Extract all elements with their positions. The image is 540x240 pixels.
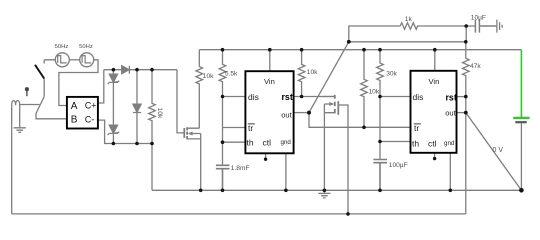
wire ctl1 stub <box>265 154 267 159</box>
wire headphone to switch node <box>20 104 40 106</box>
switch S1 <box>35 65 44 97</box>
svg-text:47k: 47k <box>470 63 481 70</box>
diode D1 <box>122 66 130 74</box>
probe arrow marker <box>26 88 29 96</box>
svg-text:tr: tr <box>248 123 253 133</box>
capacitor C3 100uF <box>373 160 387 191</box>
resistor R4 10k (rst1 pullup) <box>298 50 305 97</box>
svg-text:B: B <box>71 115 78 126</box>
zener Z2 <box>108 125 120 143</box>
wire th1 <box>223 141 246 143</box>
wire out2 <box>457 112 466 114</box>
diode D2 <box>133 70 141 144</box>
svg-text:A: A <box>71 101 78 112</box>
wire out1 down to tr2 <box>309 113 364 128</box>
wire th2 <box>380 141 411 143</box>
svg-text:rst: rst <box>282 92 293 102</box>
svg-text:out: out <box>445 108 456 117</box>
svg-text:50Hz: 50Hz <box>55 44 69 50</box>
svg-text:100µF: 100µF <box>389 162 408 169</box>
svg-text:1k: 1k <box>405 16 413 23</box>
headphone LS1 <box>12 101 20 122</box>
svg-text:10k: 10k <box>156 108 163 120</box>
wire bottom rail <box>112 144 152 191</box>
svg-text:ctl: ctl <box>428 138 437 148</box>
wire Vin1 riser <box>269 50 271 71</box>
ground G2 (rotated right) <box>497 20 502 33</box>
svg-text:1.8mF: 1.8mF <box>231 165 250 172</box>
wire cap feed <box>466 26 475 42</box>
battery B1 <box>513 50 529 191</box>
wire C+ to top line <box>98 70 103 103</box>
capacitor C2 10uF <box>475 20 496 33</box>
resistor R8 47k <box>462 42 469 97</box>
wire out1 <box>294 112 309 114</box>
svg-text:ctl: ctl <box>263 138 272 148</box>
wire top line <box>104 69 177 71</box>
svg-text:gnd: gnd <box>281 139 292 146</box>
resistor R6 10k (tr2) <box>361 50 368 128</box>
wire out1 diagonal to top <box>309 42 349 113</box>
resistor R5 1k <box>400 23 417 30</box>
source V1 50Hz <box>55 53 69 67</box>
wire tr1 <box>223 127 246 129</box>
svg-text:tr: tr <box>414 123 419 133</box>
svg-text:th: th <box>412 138 419 148</box>
wire rst1 to Q2 drain <box>294 96 335 98</box>
svg-text:C+: C+ <box>85 101 97 111</box>
wire rst2 <box>457 96 466 98</box>
resistor R1 10k (vertical, rotated label) <box>149 70 156 144</box>
svg-text:50Hz: 50Hz <box>79 44 93 50</box>
resistor R7 30k (dis2) <box>377 50 384 97</box>
source V2 50Hz <box>80 53 94 67</box>
wire gate riser MOSFET Q1 <box>177 70 184 133</box>
transistor Q1 n-MOSFET <box>184 127 200 139</box>
svg-text:10k: 10k <box>203 73 214 80</box>
svg-text:0 V: 0 V <box>493 147 504 154</box>
wire switch to B pin <box>36 97 66 119</box>
svg-text:10k: 10k <box>307 69 318 76</box>
wire left AC lead <box>44 60 55 64</box>
wire ctl2 stub <box>434 153 436 158</box>
wire out bus <box>12 213 466 215</box>
wire out2 riser to bus <box>465 113 467 214</box>
capacitor C1 1.8mF <box>216 165 230 190</box>
wire timing node string 555#1 <box>222 97 224 166</box>
wire rst2-out2 link <box>465 97 467 113</box>
wire Q2 source to ground <box>323 113 325 191</box>
wire tr2 <box>364 126 411 128</box>
wire top link line1 <box>349 26 466 42</box>
svg-text:dis: dis <box>248 92 259 102</box>
IC U1 555 timer <box>245 71 293 153</box>
svg-text:Vin: Vin <box>264 77 275 86</box>
wire dis2 <box>380 96 411 98</box>
block U0 A/B converter <box>67 97 98 129</box>
svg-text:C-: C- <box>85 114 94 124</box>
wire dis1 <box>223 96 246 98</box>
resistor R3 5.5k <box>219 50 226 97</box>
svg-text:Vin: Vin <box>429 77 440 86</box>
wire Q1 source to ground bus <box>200 139 202 190</box>
transistor Q2 n-MOSFET (mirrored) <box>322 95 338 115</box>
wire top link line2 <box>349 41 466 43</box>
svg-text:10µF: 10µF <box>471 14 486 21</box>
wire left rail down to out bus <box>11 108 13 214</box>
wire gnd1 riser <box>285 154 287 191</box>
svg-text:rst: rst <box>446 92 457 102</box>
svg-text:10k: 10k <box>369 88 380 95</box>
wire C- to bottom rail <box>98 120 112 143</box>
wire Q2 gate to out bus <box>338 105 348 214</box>
wire ground bus <box>152 189 521 191</box>
svg-text:gnd: gnd <box>444 140 455 147</box>
zener Z1 <box>108 70 120 126</box>
wire between sources <box>69 59 79 61</box>
wire gnd2 riser <box>449 153 451 191</box>
svg-text:5.5k: 5.5k <box>225 71 238 78</box>
ground G1 under headphone <box>14 122 26 132</box>
wire 0V diagonal <box>466 113 522 191</box>
wire Vin2 riser <box>434 50 436 71</box>
IC U2 555 timer <box>411 71 457 153</box>
resistor R2 10k (drain pullup) <box>196 50 203 129</box>
wire source loop to A pin <box>59 60 98 106</box>
wire timing string 555#2 <box>379 97 381 160</box>
wire Vcc rail <box>199 49 521 51</box>
svg-text:30k: 30k <box>386 71 397 78</box>
svg-text:th: th <box>247 138 254 148</box>
svg-text:out: out <box>281 111 292 120</box>
value labels <box>55 14 504 172</box>
svg-text:dis: dis <box>413 92 424 102</box>
ground G3 mid <box>318 190 330 198</box>
